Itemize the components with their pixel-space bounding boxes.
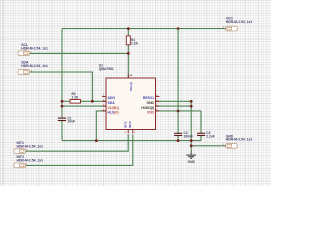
junction SCL R1 bottom [127, 52, 130, 55]
svg-text:HDR-M-2.54_1x1: HDR-M-2.54_1x1 [226, 138, 253, 142]
U1 right pin names [141, 96, 154, 114]
svg-text:HDR-M-2.54_1x1: HDR-M-2.54_1x1 [17, 144, 44, 148]
wire GND vertical [190, 101, 192, 151]
junction right row2 [190, 100, 193, 103]
svg-text:RESV1: RESV1 [143, 96, 154, 100]
wire C2 top lead [177, 111, 179, 133]
junction VCC row3 [61, 105, 64, 108]
svg-text:HLS(F): HLS(F) [108, 111, 119, 115]
sheet border [2, 0, 4, 186]
junction gnd rail2 [190, 144, 193, 147]
junction R1 top [127, 27, 130, 30]
header SDA [18, 61, 48, 75]
wire SDA net [29, 72, 92, 101]
junction C2 rail1 [177, 139, 180, 142]
wire R1 top lead [127, 29, 129, 36]
wire VCC top rail [62, 28, 226, 30]
wire right row2 GND [156, 100, 192, 102]
ground symbol [186, 151, 196, 164]
capacitor C1 [58, 116, 75, 123]
svg-text:INT2: INT2 [128, 121, 132, 128]
header VCC [226, 17, 253, 31]
wire SCL net [29, 52, 128, 54]
svg-text:HDR-M-2.54_1x1: HDR-M-2.54_1x1 [17, 159, 44, 163]
svg-text:2.2uF: 2.2uF [206, 134, 215, 138]
header SCL [18, 43, 48, 56]
header pin numbers [26, 27, 225, 166]
wire C3 top lead [200, 111, 202, 133]
junction SDA joint [91, 100, 94, 103]
svg-text:SCL(I): SCL(I) [129, 82, 133, 91]
svg-text:HVDD(I): HVDD(I) [141, 106, 154, 110]
header INT1 [14, 141, 43, 154]
wire C1 bottom lead [61, 120, 63, 140]
header GND [226, 134, 253, 148]
wire row4 GND link [96, 111, 106, 141]
wire top rail vertical x178 down [177, 29, 179, 111]
junction VCC row2 [61, 100, 64, 103]
svg-text:GND: GND [146, 101, 154, 105]
wire C1 top lead [61, 117, 63, 119]
svg-text:2.2K: 2.2K [72, 95, 80, 99]
wire VCC vertical drop [61, 29, 63, 118]
capacitor C2 [174, 131, 193, 138]
wire SDA row into IC [62, 100, 70, 102]
svg-text:HDR-M-2.54_1x1: HDR-M-2.54_1x1 [21, 47, 48, 51]
wire C3 bottom lead [200, 136, 202, 141]
svg-text:ADO: ADO [108, 96, 116, 100]
capacitor C3 [197, 131, 215, 138]
wire VCC row3 into IC [62, 105, 106, 107]
junction C2 row4 [177, 110, 180, 113]
resistor R1 [126, 36, 138, 46]
wire INT2 net [25, 134, 133, 165]
wire C2 bottom lead [177, 136, 179, 141]
U1 pin numbers [103, 74, 158, 134]
svg-text:INT1: INT1 [124, 121, 128, 128]
svg-text:GND: GND [188, 160, 196, 164]
wire GND rail2 to header [191, 145, 226, 147]
wire right row4 VDD [156, 110, 202, 112]
junction gnd rail1 [190, 139, 193, 142]
resistor R2 [70, 92, 81, 103]
U1 pin stubs [102, 74, 160, 134]
svg-text:10nF: 10nF [67, 120, 75, 124]
U1 left pin names [108, 96, 120, 114]
header INT2 [14, 155, 43, 168]
junction row4 rail1 [95, 139, 98, 142]
svg-text:HDR-M-2.54_1x1: HDR-M-2.54_1x1 [226, 20, 253, 24]
svg-text:2.2K: 2.2K [131, 42, 139, 46]
junction top rail x178 [177, 27, 180, 30]
wire GND rail1 [62, 140, 201, 142]
svg-text:100nF: 100nF [184, 134, 194, 138]
junction right row3 [190, 105, 193, 108]
svg-text:HDR-M-2.54_1x1: HDR-M-2.54_1x1 [21, 64, 48, 68]
wire right row3 [156, 105, 192, 107]
IC U1 [99, 64, 156, 130]
svg-text:V1(IN1): V1(IN1) [108, 106, 120, 110]
wire R1 bottom lead / SCL to IC top pin [127, 45, 129, 78]
wire INT1 net [25, 134, 128, 151]
svg-text:QMA7981: QMA7981 [99, 67, 114, 71]
svg-text:SDA: SDA [108, 101, 116, 105]
svg-text:VDD: VDD [147, 111, 155, 115]
